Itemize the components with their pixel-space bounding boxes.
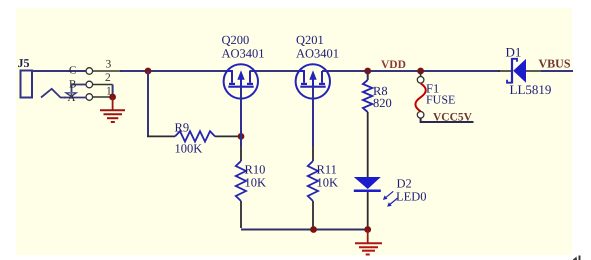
- svg-text:820: 820: [373, 96, 392, 110]
- J5 pin 1: [86, 86, 113, 101]
- ground (J5): [100, 97, 125, 122]
- svg-text:A: A: [68, 92, 76, 104]
- wire: F1 to VCC5V stub: [421, 118, 474, 122]
- junction: rail/R8 branch: [364, 68, 371, 75]
- svg-text:10K: 10K: [245, 175, 267, 189]
- svg-text:AO3401: AO3401: [296, 47, 339, 61]
- wire: main rail Q201 to D1: [322, 70, 500, 72]
- svg-text:2: 2: [105, 72, 111, 84]
- junction: rail/R9 branch: [145, 68, 152, 75]
- corner mark: [573, 257, 578, 260]
- svg-text:VCC5V: VCC5V: [433, 112, 473, 124]
- wire: rail to R8: [367, 71, 369, 80]
- junction: LED/bottom rail: [364, 226, 371, 233]
- wire: R9 left pin: [147, 135, 175, 137]
- svg-text:D1: D1: [506, 45, 522, 60]
- wire: Q201 gate down: [312, 87, 314, 146]
- svg-text:C: C: [69, 65, 76, 77]
- svg-text:100K: 100K: [175, 142, 203, 156]
- wire: Q200 gate down: [240, 87, 242, 146]
- fuse F1: [415, 71, 425, 118]
- junction: J5 pin1/pin2: [109, 94, 116, 101]
- svg-text:3: 3: [106, 59, 112, 71]
- junction: R11/bottom rail: [310, 226, 317, 233]
- LED D2: [354, 177, 398, 207]
- wire: R8 to LED D2: [367, 112, 369, 177]
- wire: main rail D1 to VBUS: [541, 70, 573, 72]
- svg-text:B: B: [69, 79, 76, 91]
- wire: J5 pin2 to pin1: [112, 85, 114, 98]
- J5 pin 3: [86, 59, 121, 75]
- wire: R10 top pin: [240, 146, 242, 161]
- transistor Q200: [224, 64, 258, 98]
- wire: main rail pin3 to Q200: [120, 70, 232, 72]
- wire: LED D2 to bottom rail: [367, 192, 369, 230]
- svg-text:VDD: VDD: [381, 59, 406, 71]
- resistor R10: [236, 161, 246, 201]
- resistor R9: [175, 131, 215, 141]
- svg-text:D2: D2: [397, 177, 412, 191]
- svg-text:R9: R9: [175, 121, 190, 135]
- svg-text:Q200: Q200: [222, 33, 250, 47]
- resistor R11: [308, 161, 318, 201]
- junction: R9/Q200 gate: [238, 133, 245, 140]
- wire: R11 bottom pin: [312, 201, 314, 228]
- svg-text:10K: 10K: [317, 175, 339, 189]
- ground (bottom): [355, 230, 382, 255]
- connector J5 body: [21, 65, 93, 105]
- svg-text:J5: J5: [18, 56, 30, 70]
- wire: main rail Q200 to Q201: [250, 70, 306, 72]
- svg-text:VBUS: VBUS: [539, 57, 571, 71]
- J5 pin 2: [86, 72, 113, 88]
- wire: bottom rail: [241, 229, 368, 231]
- diode D1: [498, 58, 541, 84]
- svg-text:FUSE: FUSE: [426, 93, 455, 107]
- svg-text:LL5819: LL5819: [510, 82, 552, 97]
- wire: rail down to R9: [147, 71, 149, 136]
- junction: rail/F1 branch: [417, 68, 424, 75]
- wire: R11 top pin: [312, 146, 314, 161]
- svg-text:LED0: LED0: [396, 190, 427, 204]
- wire: R9 to gate node: [215, 135, 241, 137]
- transistor Q201: [296, 64, 330, 98]
- wire: R10 bottom pin: [240, 201, 242, 228]
- resistor R8: [363, 80, 372, 112]
- svg-text:Q201: Q201: [296, 33, 324, 47]
- svg-text:AO3401: AO3401: [222, 47, 265, 61]
